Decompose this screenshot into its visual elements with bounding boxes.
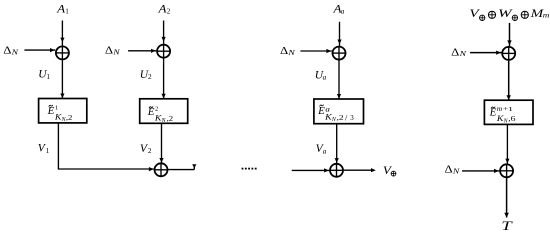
xor X3	[332, 46, 346, 60]
wire E3 to xor X3b	[335, 124, 339, 163]
block E3 value label	[317, 104, 354, 123]
wire Delta_N to xor X4b	[462, 169, 499, 173]
xor X4b	[499, 164, 513, 178]
block E4	[484, 100, 533, 124]
wire Aa to xor X3	[337, 22, 341, 46]
svg-text:a: a	[323, 74, 327, 82]
wire X2 to block E2	[162, 58, 166, 98]
svg-text:1: 1	[65, 7, 69, 15]
wire A1 to xor X1	[60, 21, 64, 46]
node Delta_N label col3	[280, 46, 296, 57]
svg-text:,2: ,2	[66, 114, 73, 122]
wire E4 to xor X4b	[505, 124, 509, 163]
block E2 value label	[147, 106, 174, 124]
wire Delta_N to xor X1	[24, 48, 55, 52]
xor X4	[502, 46, 516, 60]
node V_xor output label	[383, 165, 396, 177]
node Ua label	[315, 69, 327, 81]
svg-text:T: T	[501, 219, 513, 233]
xor X2b	[154, 163, 168, 177]
wire A2 to xor X2	[162, 21, 166, 45]
node A2 label	[157, 4, 170, 16]
block E1 value label	[47, 105, 73, 123]
svg-text:2: 2	[155, 106, 158, 113]
node Delta_N label col2	[105, 46, 121, 57]
svg-text:E: E	[489, 106, 497, 118]
block E3	[314, 99, 364, 124]
svg-text:N: N	[452, 166, 461, 175]
svg-text:E: E	[147, 106, 155, 118]
wire E1 down to rail and into xor X2b	[58, 123, 153, 171]
svg-text:,2: ,2	[167, 115, 174, 123]
svg-text:a: a	[323, 147, 327, 155]
block E1	[39, 99, 87, 123]
wire E2 to xor X2b	[159, 123, 163, 163]
ellipsis dots	[242, 168, 257, 170]
svg-text:W: W	[498, 8, 513, 20]
svg-text:E: E	[47, 105, 55, 117]
xor X1	[55, 46, 69, 60]
block E4 value label	[489, 105, 517, 125]
node V_xor W_xor M_m label (top right)	[469, 8, 549, 21]
svg-text:m: m	[543, 12, 550, 20]
wire top label to xor X4	[507, 23, 511, 46]
node U2 label	[140, 69, 152, 81]
wire X2b out to continuation arrow	[168, 164, 196, 169]
node Delta_N label col1	[3, 46, 19, 57]
node Delta_N label col4 bottom	[445, 165, 461, 176]
svg-text:,2: ,2	[337, 114, 345, 122]
node A1 label	[56, 3, 69, 15]
svg-text:,6: ,6	[508, 115, 516, 123]
node Aa label	[332, 4, 344, 16]
svg-text:N: N	[112, 47, 121, 56]
node Va label	[316, 143, 327, 155]
block E2	[140, 99, 188, 124]
svg-text:1: 1	[55, 105, 58, 112]
svg-text:2: 2	[148, 73, 152, 81]
wire rail into xor X3b	[292, 168, 330, 172]
wire X4 to block E4	[507, 61, 511, 100]
node U1 label	[38, 69, 50, 81]
svg-text:N: N	[287, 48, 296, 57]
node V2 label	[140, 143, 152, 155]
svg-text:2: 2	[148, 147, 152, 155]
xor X2	[156, 44, 170, 58]
wire X1 to block E1	[60, 60, 64, 98]
svg-text:N: N	[10, 47, 19, 56]
svg-text:+1: +1	[503, 106, 513, 113]
xor X3b	[329, 163, 343, 177]
node Delta_N label col4 top	[451, 47, 467, 58]
svg-text:a: a	[341, 8, 345, 16]
wire X3b to V_plus output	[344, 168, 376, 172]
svg-text:1: 1	[46, 73, 50, 81]
wire X4b to T output	[504, 178, 509, 218]
svg-text:3: 3	[350, 114, 354, 122]
svg-text:m: m	[497, 105, 502, 113]
wire Delta_N to xor X3	[300, 49, 331, 53]
svg-text:E: E	[317, 105, 325, 117]
wire Delta_N to xor X2	[128, 49, 156, 53]
svg-text:1: 1	[46, 147, 50, 155]
svg-text:2: 2	[167, 8, 171, 16]
wire X3 to block E3	[337, 60, 341, 99]
node V1 label	[38, 143, 50, 155]
wire Delta_N to xor X4	[470, 51, 502, 55]
svg-text:N: N	[458, 49, 467, 58]
